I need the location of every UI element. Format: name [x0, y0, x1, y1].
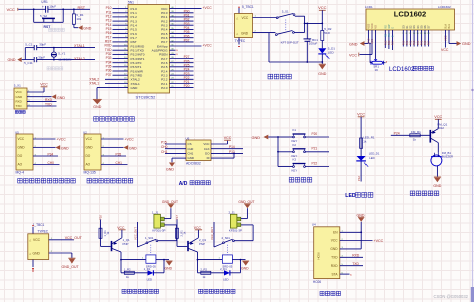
- svg-text:VCC: VCC: [434, 115, 442, 119]
- svg-text:KF301-3P: KF301-3P: [152, 229, 165, 233]
- svg-text:5_Y1: 5_Y1: [58, 51, 65, 55]
- svg-text:GND: GND: [188, 156, 194, 160]
- svg-text:+VCC: +VCC: [374, 239, 384, 243]
- svg-text:TXD: TXD: [352, 262, 359, 266]
- svg-text:GND_OUT: GND_OUT: [162, 200, 178, 204]
- svg-text:100uF: 100uF: [309, 42, 318, 46]
- svg-text:P07: P07: [427, 40, 431, 45]
- svg-text:CS: CS: [188, 142, 192, 146]
- svg-text:P37: P37: [106, 73, 112, 77]
- svg-text:HC06: HC06: [317, 252, 321, 260]
- svg-text:P22: P22: [312, 161, 318, 165]
- svg-text:TYPEC: TYPEC: [37, 229, 48, 233]
- svg-text:P00: P00: [401, 40, 405, 45]
- svg-text:HC06: HC06: [313, 280, 321, 284]
- svg-text:10k: 10k: [76, 17, 81, 21]
- svg-text:5_S2: 5_S2: [40, 14, 47, 18]
- svg-text:P26: P26: [387, 40, 391, 45]
- svg-text:VCC: VCC: [33, 238, 41, 242]
- svg-text:TXD: TXD: [45, 103, 52, 107]
- svg-text:10uF: 10uF: [49, 5, 56, 9]
- svg-text:LED_D1: LED_D1: [369, 152, 380, 156]
- svg-text:VSS: VSS: [368, 23, 371, 28]
- svg-text:P20: P20: [184, 84, 190, 88]
- svg-text:11.0592M: 11.0592M: [58, 57, 72, 61]
- svg-text:RXD: RXD: [45, 98, 53, 102]
- svg-text:U6: U6: [186, 136, 190, 140]
- svg-text:51R: 51R: [324, 31, 330, 35]
- svg-text:VCC: VCC: [40, 83, 48, 87]
- svg-text:P16: P16: [99, 215, 103, 220]
- svg-text:TXD: TXD: [16, 104, 23, 108]
- svg-text:EN: EN: [333, 231, 338, 235]
- svg-text:CH0: CH0: [188, 147, 194, 151]
- svg-text:KEY: KEY: [292, 169, 298, 173]
- svg-text:+VCC: +VCC: [57, 137, 67, 141]
- svg-text:P20: P20: [312, 132, 318, 136]
- svg-text:CH1: CH1: [161, 150, 168, 154]
- svg-text:PNP: PNP: [123, 242, 129, 246]
- svg-text:GND: GND: [349, 42, 358, 46]
- svg-text:MQ-135: MQ-135: [84, 170, 96, 174]
- svg-text:+VCC: +VCC: [125, 137, 135, 141]
- svg-text:BLK: BLK: [448, 24, 451, 29]
- svg-text:VDD: VDD: [371, 23, 374, 28]
- svg-text:AO: AO: [18, 163, 23, 167]
- svg-text:GND: GND: [86, 146, 94, 150]
- svg-text:TYPEC: TYPEC: [235, 39, 246, 43]
- svg-text:GND: GND: [241, 267, 249, 271]
- svg-text:GND: GND: [61, 146, 69, 150]
- svg-text:GND: GND: [433, 184, 441, 188]
- svg-text:GND: GND: [252, 136, 261, 140]
- svg-text:GND: GND: [367, 38, 370, 44]
- svg-text:P2.0: P2.0: [161, 86, 168, 90]
- svg-text:GND_OUT: GND_OUT: [238, 200, 254, 204]
- svg-text:DO: DO: [205, 152, 210, 156]
- svg-text:VCC: VCC: [318, 5, 327, 10]
- svg-text:VCC_OUT: VCC_OUT: [65, 236, 83, 240]
- svg-text:STC89C52: STC89C52: [136, 95, 157, 100]
- svg-text:CH0: CH0: [161, 145, 168, 149]
- svg-text:CLK: CLK: [204, 147, 210, 151]
- svg-text:30pF: 30pF: [39, 43, 46, 47]
- svg-text:△: △: [29, 239, 31, 242]
- svg-text:5_S1: 5_S1: [282, 9, 289, 13]
- svg-text:A/D: A/D: [179, 181, 188, 187]
- svg-text:P27: P27: [391, 40, 395, 45]
- svg-text:TXD: TXD: [331, 256, 338, 260]
- svg-text:1_TBC1: 1_TBC1: [33, 223, 45, 227]
- svg-text:VCC: VCC: [242, 16, 249, 20]
- svg-text:2_J1: 2_J1: [229, 210, 236, 214]
- svg-text:VCC: VCC: [331, 239, 338, 243]
- svg-text:PNP: PNP: [199, 242, 205, 246]
- svg-text:VCC: VCC: [18, 137, 25, 141]
- svg-text:VCC: VCC: [443, 35, 447, 41]
- svg-text:VCC_OUT: VCC_OUT: [134, 227, 138, 240]
- svg-text:P17: P17: [175, 215, 179, 220]
- svg-text:VCC: VCC: [349, 53, 357, 57]
- svg-text:+VCC: +VCC: [203, 6, 213, 10]
- svg-text:P14: P14: [229, 145, 235, 149]
- svg-text:RXD: RXD: [352, 254, 360, 258]
- svg-text:GND_OUT: GND_OUT: [62, 265, 80, 269]
- svg-text:2_S01: 2_S01: [222, 236, 231, 240]
- svg-text:9012: 9012: [437, 126, 444, 130]
- svg-text:VO: VO: [375, 25, 378, 29]
- svg-text:AO: AO: [86, 163, 91, 167]
- svg-text:5_X1: 5_X1: [14, 83, 21, 87]
- svg-text:P04: P04: [416, 40, 420, 45]
- svg-text:RXD: RXD: [16, 100, 23, 104]
- svg-text:LCD1: LCD1: [365, 5, 373, 9]
- svg-text:FM_R1: FM_R1: [411, 130, 421, 134]
- svg-text:1_J1: 1_J1: [152, 210, 159, 214]
- svg-text:VCC: VCC: [16, 90, 23, 94]
- svg-text:U2: U2: [83, 131, 87, 135]
- svg-text:1K: 1K: [375, 68, 379, 72]
- svg-text:GND: GND: [57, 96, 65, 100]
- svg-text:XTAL2: XTAL2: [74, 57, 85, 61]
- svg-text:VCC_OUT: VCC_OUT: [210, 227, 214, 240]
- svg-text:XTAL1: XTAL1: [89, 82, 99, 86]
- svg-text:GND: GND: [166, 168, 174, 172]
- svg-text:K3: K3: [293, 158, 297, 162]
- svg-text:1_D1: 1_D1: [144, 267, 151, 271]
- svg-text:△: △: [236, 17, 238, 20]
- svg-text:2_D1: 2_D1: [220, 267, 227, 271]
- svg-text:GND: GND: [131, 86, 139, 90]
- svg-text:P35: P35: [116, 152, 122, 156]
- svg-text:×: ×: [176, 53, 178, 57]
- svg-text:P01: P01: [405, 40, 409, 45]
- svg-text:P06: P06: [423, 40, 427, 45]
- svg-text:K1: K1: [293, 128, 297, 132]
- svg-text:GND: GND: [93, 105, 101, 109]
- svg-text:P02: P02: [409, 40, 413, 45]
- svg-text:BLA: BLA: [445, 24, 448, 29]
- svg-text:1k: 1k: [413, 137, 417, 141]
- svg-text:LED: LED: [369, 156, 374, 160]
- svg-text:2_R2: 2_R2: [200, 267, 207, 271]
- svg-text:1k: 1k: [363, 139, 367, 143]
- svg-text:CH1: CH1: [188, 152, 194, 156]
- svg-text:GND: GND: [318, 72, 326, 76]
- svg-text:GND: GND: [241, 31, 249, 35]
- svg-text:RS: RS: [385, 33, 387, 37]
- svg-text:VCC: VCC: [7, 7, 16, 12]
- svg-text:VCC: VCC: [224, 136, 232, 140]
- svg-text:+: +: [42, 4, 44, 8]
- svg-text:XTAL1: XTAL1: [74, 44, 85, 48]
- svg-text:P25: P25: [383, 40, 387, 45]
- svg-text:P05: P05: [420, 40, 424, 45]
- svg-text:GND: GND: [462, 42, 471, 46]
- svg-text:LED: LED: [345, 193, 356, 199]
- svg-text:DI: DI: [207, 156, 210, 160]
- svg-text:MQ-4: MQ-4: [16, 170, 25, 174]
- svg-text:P34: P34: [48, 152, 54, 156]
- svg-text:5_C1: 5_C1: [25, 43, 33, 47]
- svg-text:GND: GND: [16, 95, 24, 99]
- svg-text:P07: P07: [184, 39, 190, 43]
- svg-text:P03: P03: [412, 40, 416, 45]
- svg-text:KFT DIP-D2T: KFT DIP-D2T: [281, 40, 299, 44]
- svg-text:LED: LED: [328, 50, 335, 54]
- svg-text:GND: GND: [33, 252, 41, 256]
- svg-text:LCD1602: LCD1602: [438, 5, 451, 9]
- svg-text:VCC: VCC: [371, 38, 374, 43]
- svg-text:P15: P15: [161, 140, 167, 144]
- svg-text:P21: P21: [312, 147, 318, 151]
- svg-text:LCD1602: LCD1602: [394, 10, 427, 19]
- svg-text:△: △: [236, 32, 238, 35]
- svg-text:LED: LED: [147, 278, 152, 282]
- svg-text:STA: STA: [332, 272, 339, 276]
- svg-text:RXD: RXD: [331, 264, 338, 268]
- svg-text:K2: K2: [293, 143, 297, 147]
- svg-text:×: ×: [350, 273, 352, 277]
- svg-text:1_S01: 1_S01: [145, 236, 154, 240]
- svg-text:5_TBC1: 5_TBC1: [242, 5, 254, 9]
- svg-text:GND: GND: [165, 267, 173, 271]
- svg-text:ADC0832: ADC0832: [186, 162, 201, 166]
- svg-text:30pF: 30pF: [38, 55, 45, 59]
- svg-text:P24: P24: [394, 132, 400, 136]
- svg-text:U5: U5: [15, 131, 19, 135]
- svg-text:P12: P12: [357, 176, 361, 181]
- svg-text:LED: LED: [223, 278, 228, 282]
- svg-text:VCC: VCC: [203, 142, 209, 146]
- svg-text:GND: GND: [129, 146, 137, 150]
- svg-text:1_R2: 1_R2: [124, 267, 131, 271]
- svg-text:DO: DO: [18, 154, 23, 158]
- svg-text:VCC: VCC: [441, 48, 449, 52]
- svg-text:KF301-3P: KF301-3P: [229, 229, 242, 233]
- svg-text:5_C11: 5_C11: [24, 61, 33, 65]
- svg-text:△: △: [29, 253, 31, 256]
- svg-text:RS: RS: [384, 25, 387, 29]
- svg-text:DO: DO: [86, 154, 91, 158]
- svg-text:+VCC: +VCC: [203, 43, 213, 47]
- svg-text:VCC: VCC: [357, 113, 365, 117]
- svg-text:GND: GND: [8, 58, 16, 62]
- svg-text:5N1: 5N1: [128, 1, 134, 5]
- svg-text:CH0: CH0: [48, 161, 55, 165]
- svg-text:GND: GND: [330, 247, 338, 251]
- svg-text:CH1: CH1: [116, 161, 123, 165]
- svg-text:GND: GND: [18, 146, 26, 150]
- svg-text:CSDN @G050032: CSDN @G050032: [434, 294, 469, 299]
- svg-text:GND: GND: [83, 26, 91, 30]
- svg-text:LCD1602: LCD1602: [389, 67, 415, 73]
- svg-text:U4: U4: [312, 222, 316, 226]
- svg-text:VCC: VCC: [86, 137, 93, 141]
- svg-text:BUZZER: BUZZER: [442, 155, 453, 159]
- svg-text:RST: RST: [78, 6, 86, 10]
